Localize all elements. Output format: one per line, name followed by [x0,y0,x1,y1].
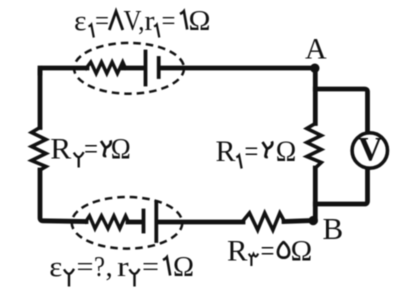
digit 1 (Persian) of 1 ohm [163,257,170,275]
resistor r1 (internal, zigzag in battery 1) [86,62,126,74]
subscript 1 under epsilon1 [89,25,94,38]
subscript 3 under R3 [249,254,258,266]
svg-text:ε: ε [49,251,62,283]
wire R1 to node B [313,168,318,220]
digit 8 (Persian) of 8V [109,11,123,30]
wire zigzag to battery 2 short plate [128,220,142,225]
svg-text:=: = [261,235,275,268]
svg-text:Ω: Ω [173,251,194,283]
svg-text:V: V [358,131,383,168]
resistor r2 (internal, zigzag in battery 2) [86,216,129,229]
resistor R2 zigzag [32,128,47,171]
digit 4 (Persian) of 4 ohm [101,140,111,156]
battery 1 dashed ellipse [74,43,184,94]
battery 2 dashed ellipse [72,197,183,249]
subscript 1 under r1 [154,25,159,38]
subscript 2 under r2 [130,269,140,287]
wire battery 2 to resistor R3 [158,220,243,225]
voltmeter circle [352,133,387,168]
svg-text:=: = [162,5,176,37]
svg-text:A: A [305,33,327,66]
battery 1 long plate [144,52,148,85]
svg-text:=: = [84,133,98,166]
svg-text:Ω: Ω [111,133,131,166]
node A junction dot [310,63,319,72]
svg-text:Ω: Ω [276,135,297,168]
label R2 = 4 ohm [50,133,131,166]
wire zigzag to battery plate [123,66,143,71]
subscript 2 under epsilon2 [64,269,74,287]
svg-text:ε: ε [74,5,87,37]
wire left vertical lower [40,170,86,222]
label R3 = 5 ohm [227,235,312,268]
resistor R3 zigzag [243,213,285,230]
digit 1 (Persian) of 1 ohm [180,11,187,29]
battery 1 short plate [157,58,161,77]
node B junction dot [309,216,318,225]
svg-text:V,: V, [124,5,145,37]
svg-text:Ω: Ω [189,5,211,37]
svg-text:r: r [117,251,129,283]
label R1 = 4 ohm [216,135,297,168]
wire battery 1 to node A [161,66,313,71]
wire node A down to R1 [313,68,318,124]
svg-text:r: r [145,5,155,37]
wire branch A to voltmeter top [315,89,367,132]
svg-text:R: R [216,135,236,168]
svg-text:=: = [244,135,258,168]
svg-text:R: R [227,235,248,268]
svg-text:=: = [77,251,94,283]
wire top-left horizontal to battery 1 [40,68,87,73]
label epsilon1 = 8V, r1 = 1 ohm [74,5,211,37]
battery 2 short plate [142,211,146,232]
svg-text:B: B [323,211,344,246]
svg-text:Ω: Ω [291,235,313,268]
subscript 2 under R2 [74,152,84,167]
wire R3 to node B [284,221,312,222]
subscript 1 under R1 [236,155,241,168]
digit 4 (Persian) of 4 ohm [263,141,273,157]
battery 2 long plate [154,202,158,241]
wire voltmeter bottom to branch B [315,169,367,204]
svg-text:,: , [106,251,113,283]
digit 5 (Persian) of 5 ohm [278,242,289,258]
resistor R1 zigzag [307,124,322,169]
wire left vertical upper [38,68,43,128]
svg-text:R: R [50,133,71,166]
svg-text:=: = [95,5,109,37]
svg-text:?: ? [94,251,105,283]
label epsilon2 = ?, r2 = 1 ohm [49,251,194,283]
svg-text:=: = [142,251,159,283]
